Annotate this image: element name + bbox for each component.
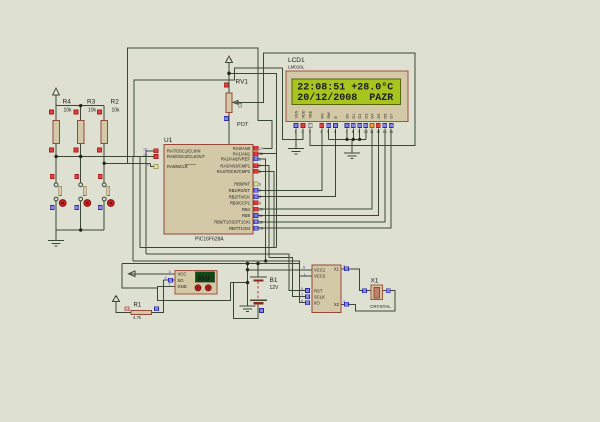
- power symbol R1: [113, 296, 120, 302]
- wire LCD D0 drop: [346, 129, 348, 140]
- RTC chip DS1302: [301, 264, 349, 313]
- button 1: [50, 175, 66, 210]
- wire DS1302 X1 to crystal: [341, 269, 371, 291]
- svg-text:3kU: 3kU: [197, 275, 210, 283]
- wire LCD D4 to RB4: [259, 129, 373, 210]
- wire buttons bottom rail to ground: [56, 230, 104, 241]
- svg-text:SCLK: SCLK: [314, 294, 325, 299]
- svg-text:10: 10: [364, 130, 368, 134]
- wire RA1 stub: [259, 153, 277, 155]
- sounder speaker module: [165, 269, 218, 294]
- svg-text:RA6/OSC2/CLKOUT: RA6/OSC2/CLKOUT: [167, 154, 205, 159]
- button 3: [98, 175, 114, 210]
- svg-text:6: 6: [259, 183, 261, 187]
- svg-text:5: 5: [327, 130, 329, 134]
- svg-text:RB2/TX/CK: RB2/TX/CK: [229, 194, 250, 199]
- svg-text:D3: D3: [364, 114, 368, 119]
- svg-text:X2: X2: [334, 302, 340, 307]
- resistor R3: [74, 99, 97, 153]
- svg-text:R4: R4: [63, 99, 72, 106]
- wire R3 bottom to button2: [80, 144, 82, 183]
- svg-text:4.7k: 4.7k: [133, 315, 142, 320]
- wire pot bottom to ground: [228, 113, 230, 161]
- wire RA1 bottom line: [140, 247, 276, 249]
- svg-text:VCC: VCC: [178, 272, 187, 277]
- svg-text:RB4: RB4: [242, 207, 251, 212]
- wire sounder SG stub: [164, 279, 176, 281]
- wire button2 bottom drop: [80, 201, 82, 230]
- wire battery minus down: [234, 283, 258, 319]
- svg-text:CRYSTAL: CRYSTAL: [370, 304, 391, 309]
- U1 right pin squares: [254, 146, 263, 230]
- svg-text:D1: D1: [352, 114, 356, 119]
- ground LCD rail: [344, 153, 360, 159]
- wire LCD D1 drop: [352, 129, 354, 140]
- svg-text:RB3/CCP1: RB3/CCP1: [230, 201, 251, 206]
- svg-text:7: 7: [259, 189, 261, 193]
- svg-text:D7: D7: [390, 114, 394, 119]
- wire VDD drop to LCD pin2: [282, 68, 303, 140]
- power symbol RV1: [226, 56, 233, 63]
- resistor R4: [50, 99, 73, 153]
- svg-text:VSS: VSS: [295, 110, 299, 118]
- wire RST bottom line: [146, 254, 306, 291]
- wire button3 branch: [104, 162, 150, 164]
- wire rail ground stem: [351, 139, 353, 153]
- wire RA4 stub down: [259, 171, 275, 247]
- wire VEE to pot wiper loop: [242, 53, 415, 145]
- svg-text:13: 13: [383, 130, 387, 134]
- node VDD battery junction: [246, 262, 249, 265]
- svg-text:D6: D6: [383, 114, 387, 119]
- svg-text:X1: X1: [371, 278, 379, 285]
- svg-text:U1: U1: [164, 137, 173, 144]
- svg-text:2: 2: [302, 130, 304, 134]
- button 2: [75, 175, 91, 210]
- wire VCC2 drop: [299, 264, 301, 276]
- wire R1 left to power arrow: [116, 302, 131, 313]
- svg-text:9: 9: [358, 130, 360, 134]
- wire battery plus: [257, 264, 259, 278]
- wire RA7 down: [146, 151, 155, 254]
- svg-text:RA4/T0CKI/CMP2: RA4/T0CKI/CMP2: [217, 169, 251, 174]
- svg-text:11: 11: [370, 130, 374, 134]
- wire R3 top drop: [80, 106, 82, 121]
- svg-text:RA7/OSC1/CLKIN: RA7/OSC1/CLKIN: [167, 149, 200, 154]
- wire R2 bottom to button3: [103, 144, 105, 183]
- svg-text:VCC2: VCC2: [314, 274, 326, 279]
- wire button1 bottom drop: [55, 201, 57, 230]
- resistor R2: [98, 99, 121, 153]
- node button1 top junction: [54, 155, 57, 158]
- svg-text:RA0/AN0: RA0/AN0: [233, 146, 251, 151]
- svg-text:16: 16: [143, 148, 147, 152]
- svg-text:4: 4: [320, 130, 322, 134]
- svg-text:POT: POT: [237, 122, 249, 128]
- LCD pin squares: [294, 124, 393, 135]
- svg-text:6: 6: [334, 130, 336, 134]
- svg-text:4: 4: [147, 163, 149, 167]
- svg-text:B1: B1: [270, 277, 278, 284]
- wire button3 bottom drop: [103, 201, 105, 230]
- wire VCC rail top of R4 R3 R2: [56, 95, 104, 106]
- svg-text:RA2/AN2/VREF: RA2/AN2/VREF: [221, 157, 251, 162]
- svg-text:10k: 10k: [112, 108, 121, 114]
- svg-text:20/12/2008 PAZR: 20/12/2008 PAZR: [297, 92, 393, 104]
- crystal X1: [363, 278, 392, 310]
- node button3 top junction: [103, 162, 106, 165]
- node ground battery junction: [246, 281, 249, 284]
- wire R2 top drop: [103, 106, 105, 121]
- wire LCD D7 to RB7: [259, 129, 392, 228]
- wire LCD D2 drop: [359, 129, 361, 140]
- ground buttons rail: [48, 241, 64, 247]
- node buttons bottom junction: [79, 228, 82, 231]
- wire sounder GND to battery ground: [157, 283, 230, 301]
- ground battery: [240, 306, 256, 312]
- wire LCD D3 drop: [365, 129, 367, 140]
- resistor R1: [125, 303, 159, 321]
- svg-text:RST: RST: [314, 288, 323, 293]
- wire R4 bottom to button1: [55, 144, 57, 183]
- node power stem junction: [227, 72, 231, 76]
- ground LCD VSS: [288, 149, 304, 155]
- wire R4 top drop: [55, 106, 57, 121]
- svg-text:9: 9: [259, 201, 261, 205]
- svg-text:R2: R2: [111, 99, 120, 106]
- LCD1 display LM016L: [286, 57, 408, 134]
- op-amp U1 microcontroller PIC16F628A: [143, 137, 263, 243]
- svg-text:3: 3: [309, 130, 311, 134]
- wire LCD RS to RB1: [259, 129, 322, 191]
- wire top loop button3 to RA0: [127, 48, 272, 163]
- wire battery minus loop: [231, 282, 248, 284]
- wire LCD VSS to ground: [295, 129, 297, 149]
- U1 left pin squares: [143, 148, 158, 169]
- wire LCD D6 to RB6: [259, 129, 385, 222]
- wire LCD E to RB2: [259, 129, 336, 197]
- potentiometer RV1: [224, 79, 249, 129]
- ground pot: [221, 161, 237, 167]
- svg-text:12V: 12V: [270, 285, 280, 291]
- wire buttons row branch to U1 RA6: [56, 156, 154, 158]
- wire LCD D5 to RB5: [259, 129, 379, 216]
- wire LCD RW to gnd rail: [328, 129, 330, 140]
- svg-text:RS: RS: [320, 113, 324, 119]
- svg-text:14: 14: [389, 130, 393, 134]
- svg-text:17: 17: [259, 147, 263, 151]
- wire VDD terminal line bottom: [122, 263, 300, 265]
- svg-text:PIC16F628A: PIC16F628A: [195, 237, 224, 243]
- svg-text:3: 3: [259, 170, 261, 174]
- svg-text:RA5/MCLR: RA5/MCLR: [167, 164, 188, 169]
- node button2 top junction: [79, 155, 82, 158]
- battery B1: [250, 277, 279, 313]
- svg-text:RW: RW: [327, 112, 331, 119]
- svg-text:VEE: VEE: [309, 110, 313, 118]
- svg-text:D0: D0: [346, 114, 350, 119]
- wire RA3 to SCLK line: [259, 166, 270, 258]
- svg-text:RB1/RX/DT: RB1/RX/DT: [229, 188, 251, 193]
- svg-text:RB0/INT: RB0/INT: [234, 182, 250, 187]
- svg-text:R3: R3: [87, 99, 96, 106]
- svg-text:18: 18: [259, 152, 263, 156]
- svg-text:10: 10: [259, 208, 263, 212]
- svg-text:D5: D5: [377, 114, 381, 119]
- svg-text:LM016L: LM016L: [288, 65, 305, 70]
- node R3 top junction: [79, 104, 82, 107]
- node RA2 IO junction: [264, 259, 267, 262]
- svg-text:I/O: I/O: [314, 301, 320, 306]
- svg-text:13: 13: [259, 227, 263, 231]
- wire ground stem battery: [247, 283, 249, 306]
- svg-text:RB7/T1OSI: RB7/T1OSI: [229, 226, 250, 231]
- node rail D0: [345, 138, 348, 141]
- svg-text:LCD1: LCD1: [288, 57, 305, 64]
- svg-text:22:08:51 +28.0°C: 22:08:51 +28.0°C: [297, 82, 393, 94]
- wire sounder gnd box loop: [122, 264, 157, 289]
- wire VDD horizontal: [229, 73, 276, 247]
- power symbol left rail: [53, 88, 60, 95]
- node VCC1 junction: [246, 268, 249, 271]
- wire RA2 to I/O line: [259, 159, 266, 261]
- svg-text:VCC1: VCC1: [314, 268, 326, 273]
- wire DS1302 X2 to crystal: [341, 291, 395, 312]
- wire VCC1 stub: [248, 269, 313, 271]
- svg-text:X1: X1: [334, 267, 340, 272]
- svg-text:8: 8: [352, 130, 354, 134]
- svg-text:D4: D4: [371, 114, 375, 119]
- wire sounder VCC drop: [130, 273, 175, 275]
- svg-text:15: 15: [143, 153, 147, 157]
- terminal arrow sounder VCC: [129, 271, 136, 277]
- svg-text:1: 1: [295, 130, 297, 134]
- wire LCD gnd rail: [329, 138, 366, 140]
- node rail D1: [352, 138, 355, 141]
- svg-text:RA3/AN3/CMP1: RA3/AN3/CMP1: [220, 163, 250, 168]
- svg-text:10k: 10k: [88, 108, 97, 114]
- svg-text:1: 1: [259, 157, 261, 161]
- svg-text:12: 12: [376, 130, 380, 134]
- svg-text:RB6/T1OSO/T1CKI: RB6/T1OSO/T1CKI: [214, 220, 250, 225]
- wire col1 down: [139, 157, 141, 248]
- svg-text:RB5: RB5: [242, 213, 251, 218]
- node rail D2: [358, 138, 361, 141]
- svg-text:VDD: VDD: [302, 110, 306, 118]
- wire MCLR net to VDD: [134, 68, 282, 157]
- svg-text:D2: D2: [358, 114, 362, 119]
- svg-text:SG: SG: [178, 278, 184, 283]
- wire RA5 hook: [151, 163, 155, 166]
- svg-text:11: 11: [259, 214, 263, 218]
- wire VCC2 stub: [300, 275, 312, 277]
- svg-text:7: 7: [346, 130, 348, 134]
- wire col2 down to I/O line: [132, 157, 134, 262]
- wire SCLK bottom line: [269, 258, 305, 297]
- svg-text:R1: R1: [134, 303, 142, 309]
- svg-text:GND: GND: [178, 284, 187, 289]
- svg-text:2: 2: [259, 164, 261, 168]
- node battery plus junction: [256, 262, 259, 265]
- svg-text:10k: 10k: [64, 108, 73, 114]
- svg-text:12: 12: [259, 220, 263, 224]
- wire R1 to sounder SG: [152, 280, 164, 312]
- svg-text:8: 8: [259, 195, 261, 199]
- wire VDD from power arrow to LCD pin2: [228, 63, 230, 94]
- wire VCC1 line: [247, 264, 249, 283]
- wire I/O bottom line: [133, 261, 306, 303]
- svg-text:RV1: RV1: [236, 79, 249, 86]
